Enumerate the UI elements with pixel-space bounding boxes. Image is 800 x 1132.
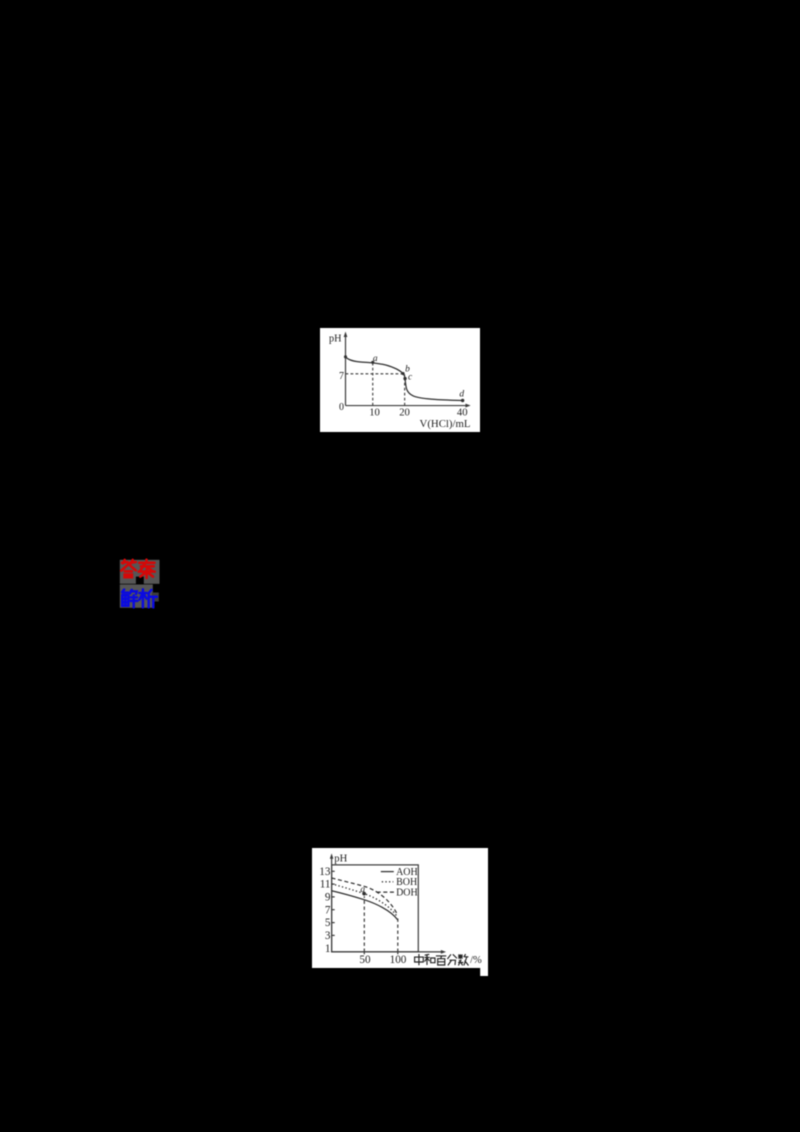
- svg-text:DOH: DOH: [396, 887, 418, 898]
- svg-text:9: 9: [325, 891, 331, 903]
- dashed line pH7: [345, 373, 402, 375]
- blue character 解: [122, 590, 137, 608]
- svg-text:V(HCl)/mL: V(HCl)/mL: [419, 418, 470, 430]
- point a: [371, 361, 374, 364]
- blue character 析: [139, 589, 157, 607]
- svg-text:13: 13: [319, 865, 331, 877]
- svg-text:11: 11: [319, 878, 330, 890]
- titration chart panel (chart 1): [320, 328, 480, 432]
- svg-text:100: 100: [389, 954, 406, 966]
- y-axis arrowhead: [343, 331, 347, 336]
- dashed vertical at 20: [403, 374, 405, 405]
- svg-text:3: 3: [325, 929, 331, 941]
- svg-text:pH: pH: [329, 333, 342, 344]
- gray highlight box 2: [120, 585, 153, 608]
- glyph 和: [424, 954, 434, 965]
- dashed vertical at 10: [372, 362, 374, 405]
- red character 答: [121, 560, 136, 577]
- glyph 数: [458, 954, 468, 965]
- point d: [461, 398, 464, 401]
- axis title 中和百分数 drawn as strokes: [414, 953, 468, 964]
- x-axis: [345, 404, 467, 406]
- dashed vertical 100: [396, 918, 398, 952]
- legend dashed line: [376, 891, 395, 893]
- red character 案: [139, 560, 155, 578]
- svg-text:0: 0: [339, 402, 344, 413]
- svg-text:7: 7: [325, 904, 331, 916]
- svg-text:d: d: [459, 389, 464, 399]
- svg-text:7: 7: [339, 371, 344, 382]
- titration curve: [345, 357, 462, 401]
- neutralisation chart panel (chart 2): [312, 848, 488, 976]
- gray highlight box 1: [120, 560, 160, 584]
- x-axis arrowhead: [441, 949, 446, 953]
- curve BOH dotted: [331, 883, 397, 916]
- svg-text:5: 5: [325, 917, 331, 929]
- legend solid line: [380, 870, 393, 872]
- curve AOH solid: [331, 890, 397, 919]
- x ticks: [363, 951, 365, 953]
- y-axis: [330, 856, 332, 951]
- svg-text:a: a: [373, 354, 378, 364]
- red answer mark 答案 and blue 解析 mark: [118, 557, 162, 611]
- white panel background: [320, 328, 480, 432]
- svg-text:40: 40: [457, 406, 468, 418]
- glyph 中: [414, 953, 423, 964]
- svg-text:/%: /%: [470, 955, 482, 966]
- point c: [403, 377, 406, 380]
- white notch bottom-right: [480, 966, 488, 976]
- svg-text:a: a: [360, 884, 365, 894]
- y-axis: [344, 335, 346, 405]
- y ticks: [331, 870, 334, 872]
- dashed vertical 50: [363, 896, 365, 952]
- point on axis: [344, 355, 347, 358]
- x-axis: [331, 950, 443, 952]
- curve DOH dashed: [331, 877, 397, 914]
- svg-text:50: 50: [359, 954, 371, 966]
- y-axis arrowhead: [329, 853, 333, 858]
- point b: [401, 372, 404, 375]
- glyph 分: [447, 954, 457, 965]
- legend dotted line: [381, 880, 392, 882]
- white panel background: [312, 848, 488, 968]
- svg-text:10: 10: [369, 406, 380, 418]
- plot frame: [331, 864, 418, 951]
- svg-text:1: 1: [325, 942, 331, 954]
- svg-text:pH: pH: [334, 853, 347, 864]
- x-axis arrowhead: [465, 403, 470, 407]
- point a on BOH: [362, 891, 366, 895]
- svg-text:20: 20: [399, 406, 410, 418]
- glyph 百: [436, 955, 446, 964]
- svg-text:BOH: BOH: [396, 877, 417, 888]
